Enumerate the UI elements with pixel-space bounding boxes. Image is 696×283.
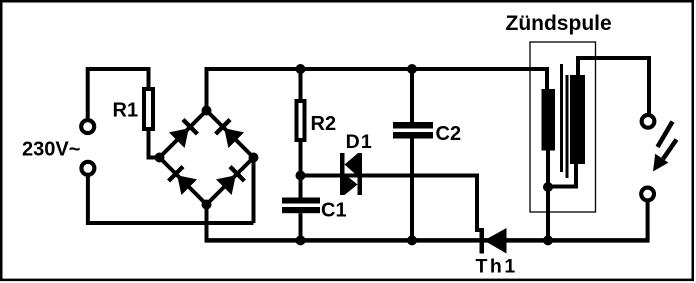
svg-text:C1: C1 xyxy=(321,200,347,222)
wire: secondary top lead to spark gap top xyxy=(578,58,649,114)
junction dot rail / C1 xyxy=(296,235,306,245)
wire: secondary bottom lead to coil common xyxy=(548,164,576,187)
spark gap bottom terminal circle xyxy=(641,188,654,201)
wire: bridge edge bottom-right xyxy=(207,158,254,205)
capacitor C2 top plate xyxy=(393,122,433,129)
svg-text:D1: D1 xyxy=(346,131,373,153)
wire: R2 top lead xyxy=(299,69,303,99)
node: bridge right xyxy=(249,153,259,163)
svg-text:Th1: Th1 xyxy=(476,256,518,278)
wire: bottom terminal to bridge right node xyxy=(88,176,254,223)
diac D1 left bar xyxy=(340,153,345,195)
resistor R1 xyxy=(144,89,153,129)
wire: bridge edge bottom-left xyxy=(160,158,207,205)
resistor R2 xyxy=(297,101,305,140)
junction dot top rail / C2 xyxy=(407,64,417,74)
terminal circle 230V top xyxy=(81,120,94,133)
wire: bridge edge top-left xyxy=(160,111,207,158)
coil core line right xyxy=(566,75,569,178)
terminal circle 230V bottom xyxy=(81,162,94,175)
wire: diac line to thyristor gate xyxy=(301,176,484,231)
spark bolt stroke lower xyxy=(663,140,677,160)
wire: bridge top node up, top rail, down into coil primary xyxy=(207,69,548,111)
diac D1 upper triangle (points left) xyxy=(345,154,358,177)
junction dot top rail / R2 xyxy=(296,64,306,74)
diode bridge D bottom-right (anode bottom node, cathode right node) xyxy=(230,167,244,181)
spark gap top terminal circle xyxy=(642,115,655,128)
wire: spark gap bottom lead to rail xyxy=(646,202,650,241)
diode bridge D top-left (anode left node, cathode top node) xyxy=(183,120,197,134)
ignition coil boundary box xyxy=(530,42,596,212)
thyristor Th1 triangle (points left) xyxy=(484,228,507,254)
svg-text:R1: R1 xyxy=(113,100,139,122)
wire: bridge edge top-right xyxy=(207,111,254,158)
coil core line left xyxy=(560,64,563,172)
coil secondary winding bar xyxy=(570,75,585,164)
svg-text:Zündspule: Zündspule xyxy=(506,12,612,35)
junction dot rail / C2 xyxy=(407,235,417,245)
svg-text:R2: R2 xyxy=(311,113,337,135)
capacitor C1 top plate xyxy=(282,198,320,204)
wire: bottom ground rail xyxy=(207,238,650,243)
wire: C1 bottom lead xyxy=(299,213,303,240)
wire: bridge right node down to AC return xyxy=(252,158,256,224)
junction dot rail / coil xyxy=(543,235,553,245)
wire: C2 top lead xyxy=(410,69,414,122)
spark bolt arrowhead xyxy=(653,154,668,172)
wire: top terminal to R1 top xyxy=(88,69,149,119)
wire: C2 bottom lead xyxy=(410,139,414,241)
node: bridge bottom xyxy=(202,200,212,210)
wire: R1 bottom to bridge left node xyxy=(149,131,160,158)
node: bridge top xyxy=(202,106,212,116)
svg-text:C2: C2 xyxy=(436,123,462,145)
coil primary winding bar xyxy=(542,89,556,151)
junction dot R2/C1/D1 xyxy=(296,171,306,181)
spark bolt stroke upper xyxy=(658,122,673,148)
diode bridge D top-right (anode right node, cathode top node) xyxy=(216,120,230,134)
diode bridge D bottom-left (anode bottom node, cathode left node) xyxy=(169,167,183,181)
junction dot coil common xyxy=(543,182,553,192)
capacitor C1 bottom plate xyxy=(282,207,320,213)
diac D1 right bar xyxy=(358,153,363,195)
thyristor Th1 cathode bar xyxy=(480,228,485,254)
node: bridge left xyxy=(155,153,165,163)
wire: bridge bottom node down to ground rail xyxy=(205,205,209,243)
wire: primary bottom lead down to rail xyxy=(546,151,550,241)
diac D1 lower triangle (points right) xyxy=(345,174,358,195)
svg-text:230V~: 230V~ xyxy=(22,139,80,161)
wire: R2 bottom lead to C1 top plate xyxy=(299,142,303,198)
capacitor C2 bottom plate xyxy=(393,132,433,139)
